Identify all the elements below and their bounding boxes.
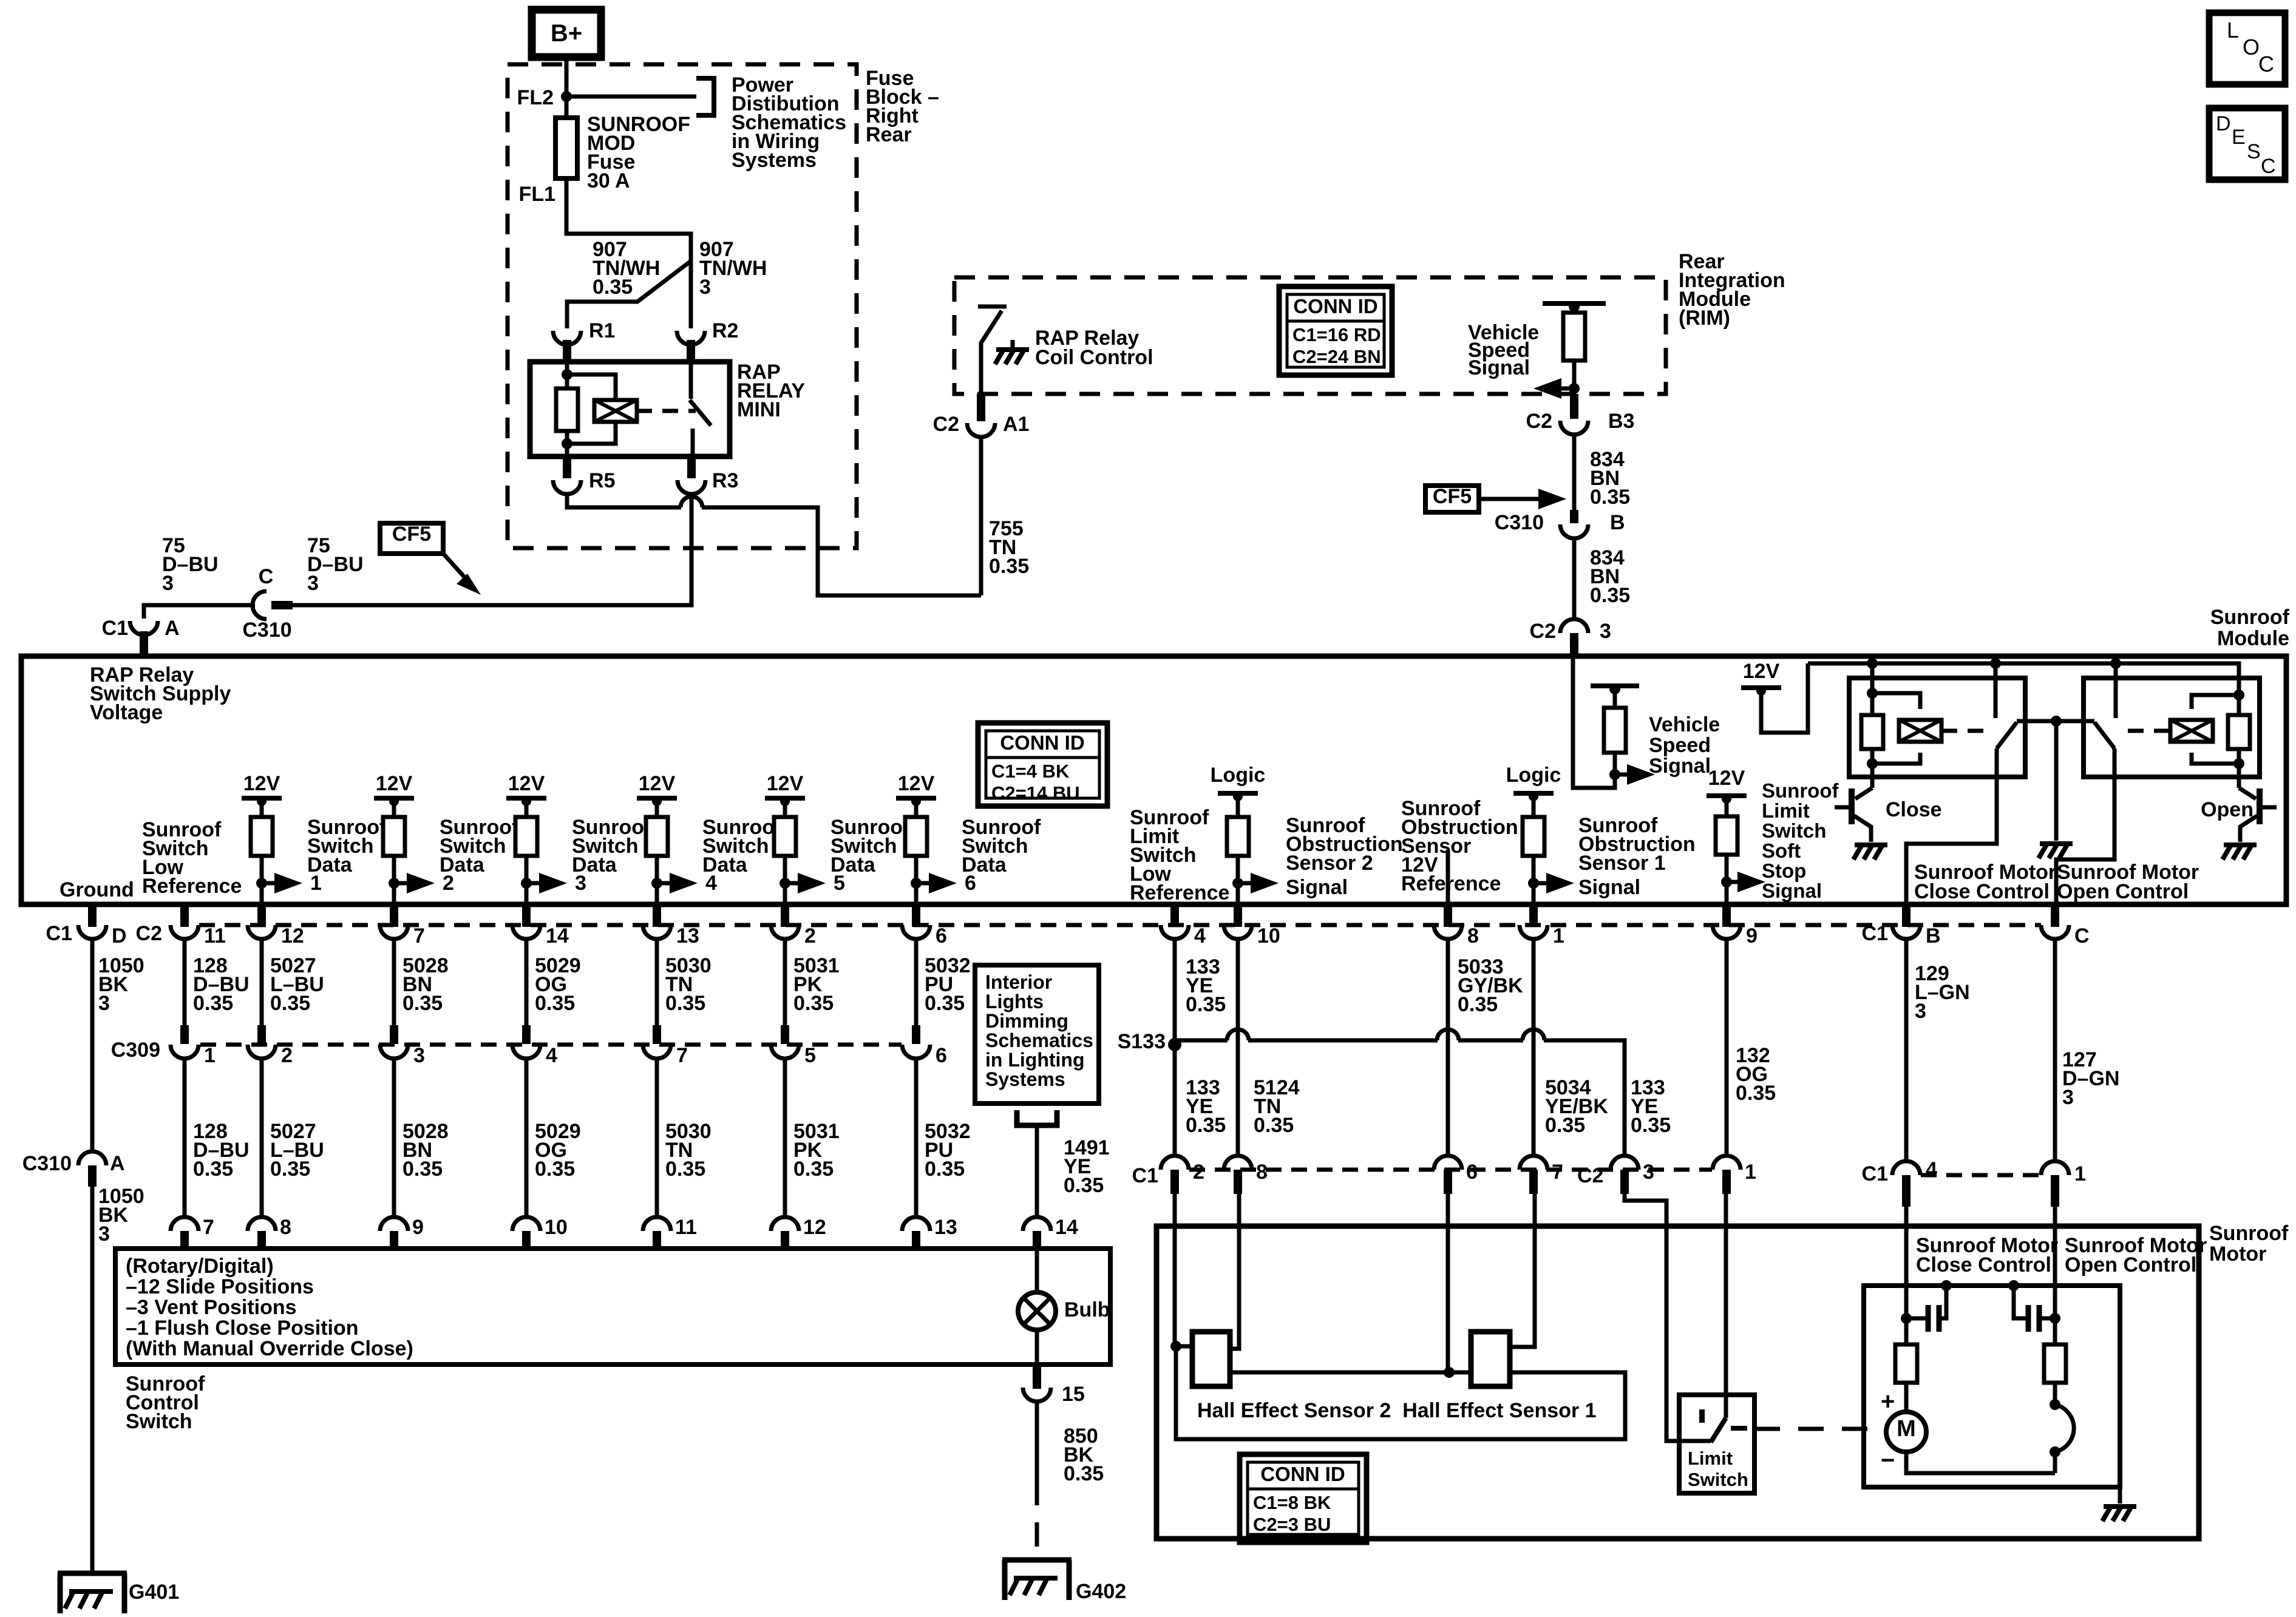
label pin C <box>2074 924 2090 947</box>
wire row1 to C309 at x867 <box>525 939 529 1025</box>
svg-text:(With Manual Override Close): (With Manual Override Close) <box>126 1337 413 1360</box>
svg-text:−: − <box>1881 1447 1895 1474</box>
label pin 1 <box>1553 924 1564 947</box>
svg-text:5: 5 <box>804 1044 816 1067</box>
close relay coil dashed link <box>1941 729 1984 733</box>
label Vehicle Speed Signal (RIM) <box>1468 321 1539 379</box>
svg-text:Signal: Signal <box>1578 876 1640 899</box>
pull-up resistor obstruction sensor 2 <box>1227 796 1249 904</box>
connector row C309 dashed line <box>200 1043 902 1047</box>
wire C309 pin 6 down <box>914 1059 919 1216</box>
RIM CONN ID table <box>1279 286 1392 375</box>
wire FL2 to power distribution pointer <box>566 95 696 99</box>
label wire 129 L-GN 3 <box>1915 962 1970 1023</box>
connector switch pin 10 <box>512 1217 540 1249</box>
svg-text:0.35: 0.35 <box>1736 1082 1776 1105</box>
label wire 128 D–BU upper <box>193 954 250 1015</box>
svg-text:Signal: Signal <box>1649 754 1711 778</box>
svg-text:G401: G401 <box>129 1581 179 1604</box>
connector row2 pin 7 <box>1520 1156 1547 1194</box>
svg-text:13: 13 <box>676 924 699 947</box>
open relay coil <box>2170 720 2213 742</box>
connector motor pin 1 <box>2041 1161 2069 1207</box>
label C309 pin 2 <box>281 1044 293 1067</box>
wire 1491 YE to switch pin 14 <box>1035 1125 1039 1216</box>
connector row1 pin C <box>2041 904 2069 939</box>
label Limit Switch <box>1688 1448 1748 1490</box>
module vehicle speed supply bar <box>1591 683 1639 694</box>
svg-text:Motor: Motor <box>2209 1242 2266 1266</box>
connector C309 pin 3 <box>380 1025 408 1059</box>
svg-text:R1: R1 <box>589 319 615 342</box>
svg-text:Reference: Reference <box>1130 881 1229 904</box>
label FL2 <box>517 86 554 109</box>
svg-text:0.35: 0.35 <box>989 555 1029 578</box>
svg-text:–12 Slide Positions: –12 Slide Positions <box>126 1275 314 1298</box>
svg-text:0.35: 0.35 <box>1458 993 1498 1016</box>
sunroof module box <box>21 656 2286 904</box>
svg-text:A: A <box>110 1152 125 1175</box>
label R2 <box>712 319 738 342</box>
svg-text:3: 3 <box>1600 620 1611 643</box>
signal arrow switch data 2 <box>389 872 454 895</box>
label C1 at pin A <box>102 617 128 640</box>
svg-text:0.35: 0.35 <box>1064 1174 1104 1197</box>
label wire 133 YE 0.35 pin2 <box>1186 1076 1226 1137</box>
svg-text:7: 7 <box>676 1044 688 1067</box>
wire B3 to C310 B (834 BN) <box>1572 435 1577 510</box>
label wire 128 D–BU lower <box>193 1120 250 1181</box>
label pin 9 <box>1746 924 1758 947</box>
label Sunroof Obstruction Sensor 1 Signal <box>1578 814 1696 899</box>
connector C309 pin 4 <box>512 1025 540 1059</box>
signal arrow switch data 3 <box>521 872 586 895</box>
svg-text:C309: C309 <box>111 1039 160 1062</box>
svg-text:Ground: Ground <box>59 878 134 901</box>
wire C309 pin 7 down <box>655 1059 659 1216</box>
svg-text:C2: C2 <box>1526 410 1552 433</box>
label 3 <box>1600 620 1611 643</box>
connector row1 pin 6 <box>902 904 930 939</box>
svg-text:Signal: Signal <box>1286 876 1348 899</box>
svg-text:0.35: 0.35 <box>1064 1462 1104 1485</box>
label wire 5027 L–BU upper <box>270 954 324 1015</box>
svg-text:4: 4 <box>546 1044 557 1067</box>
signal arrow switch data 6 <box>911 872 976 895</box>
open relay contact <box>2056 663 2116 748</box>
connector pin R5 <box>553 456 581 494</box>
svg-text:Switch: Switch <box>126 1410 192 1433</box>
ground Q2 emitter <box>2223 845 2257 859</box>
label pin 4 <box>1194 924 1206 947</box>
connector row C1-4 dashed line <box>1921 1173 2040 1178</box>
label + motor <box>1881 1388 1895 1415</box>
label R1 <box>589 319 615 342</box>
svg-text:C2: C2 <box>1577 1164 1603 1187</box>
label wire 755 TN 0.35 <box>989 517 1029 578</box>
svg-text:B: B <box>1926 924 1941 947</box>
12V supply rail for switch data 3 <box>506 772 546 806</box>
wire row1 to C309 at x1082 <box>655 939 659 1025</box>
label row2 pin 2 <box>1193 1161 1204 1184</box>
svg-text:Systems: Systems <box>732 149 817 172</box>
connector row1 pin B <box>1892 904 1920 939</box>
svg-text:6: 6 <box>936 924 947 947</box>
label Sunroof Limit Switch Low Reference <box>1130 806 1229 904</box>
CF5 arrow to 834 BN wire <box>1479 489 1566 509</box>
wire S133 splice bus to pin3 column <box>1175 1040 1625 1156</box>
module vehicle speed resistor <box>1604 689 1626 775</box>
connector row1 pin 12 <box>248 904 276 939</box>
label switch pin 14 <box>1055 1216 1078 1239</box>
svg-text:C2: C2 <box>1530 620 1556 643</box>
hop over pin8 column <box>1437 1029 1459 1040</box>
svg-text:7: 7 <box>413 924 425 947</box>
svg-text:Speed: Speed <box>1649 734 1711 757</box>
wire 12V ref node to hall1 <box>1449 1371 1471 1375</box>
svg-text:0.35: 0.35 <box>793 992 834 1015</box>
label wire 5031 PK upper <box>793 954 840 1015</box>
label pin 7 <box>413 924 425 947</box>
svg-text:B3: B3 <box>1608 410 1634 433</box>
label wire 5029 OG lower <box>535 1120 581 1181</box>
module vehicle speed signal arrow <box>1609 764 1655 785</box>
motor inner assembly box <box>1864 1286 2120 1487</box>
svg-text:+: + <box>1881 1388 1895 1415</box>
motor commutator switch arc <box>2050 1383 2074 1457</box>
svg-text:A: A <box>165 617 180 640</box>
connector row 1 dashed harness line <box>199 923 2041 927</box>
svg-text:0.35: 0.35 <box>270 992 310 1015</box>
svg-text:9: 9 <box>1746 924 1758 947</box>
svg-text:Reference: Reference <box>142 875 242 898</box>
svg-text:CF5: CF5 <box>392 523 431 546</box>
svg-text:Soft: Soft <box>1762 839 1801 862</box>
connector switch pin 8 <box>248 1217 276 1249</box>
svg-text:3: 3 <box>699 276 711 299</box>
wire pin9 to row2 pin1 (132 OG) <box>1725 939 1729 1156</box>
connector C309 pin 2 <box>248 1025 276 1059</box>
wire row1 to C309 at x1293 <box>783 939 787 1025</box>
svg-text:C: C <box>2074 924 2090 947</box>
svg-text:Sensor 1: Sensor 1 <box>1578 852 1666 875</box>
svg-text:Coil Control: Coil Control <box>1035 346 1153 369</box>
svg-text:2: 2 <box>1193 1161 1204 1184</box>
label - motor <box>1881 1447 1895 1474</box>
hall effect sensor 2 box <box>1192 1332 1230 1386</box>
svg-text:R2: R2 <box>712 319 738 342</box>
label 4 <box>1926 1158 1937 1181</box>
signal arrow obstruction sensor 2 <box>1232 873 1279 893</box>
connector row2 pin 8 <box>1224 1156 1252 1194</box>
label wire 834 BN 0.35 (lower) <box>1590 546 1630 607</box>
svg-text:Data: Data <box>702 853 748 876</box>
svg-text:Close: Close <box>1886 798 1942 821</box>
connector row1 pin 7 <box>380 904 408 939</box>
svg-text:Logic: Logic <box>1211 764 1266 787</box>
label C1 at row2 <box>1132 1164 1158 1187</box>
connector pin R3 <box>678 456 705 494</box>
12V supply rail for switch data 6 <box>896 772 936 806</box>
label wire 132 OG 0.35 <box>1736 1044 1776 1105</box>
label Power Distribution Schematics in Wiring Systems <box>732 73 846 172</box>
wire open column into motor <box>2053 1207 2057 1344</box>
wire row2 pin3 to limit switch <box>1625 1194 1711 1441</box>
label Sunroof Switch Data 2 <box>440 816 519 876</box>
power node B+ (battery feed) box <box>532 10 601 57</box>
label row2 pin 1 <box>1745 1161 1756 1184</box>
label Sunroof Switch Data 1 <box>307 816 387 876</box>
svg-text:Interior: Interior <box>985 971 1052 993</box>
svg-text:0.35: 0.35 <box>402 1158 443 1181</box>
wire bulb to pin 15 <box>1035 1330 1039 1364</box>
svg-text:D: D <box>2216 112 2231 135</box>
label Vehicle Speed Signal (module) <box>1649 713 1720 778</box>
label wire 1050 BK upper <box>98 954 144 1015</box>
svg-text:0.35: 0.35 <box>1631 1114 1671 1137</box>
pull-up resistor switch data 5 <box>774 801 796 904</box>
svg-text:1: 1 <box>1553 924 1564 947</box>
svg-text:10: 10 <box>1257 924 1280 947</box>
label pin 13 <box>676 924 699 947</box>
svg-text:Schematics: Schematics <box>985 1029 1093 1051</box>
wire row1 to C309 at x304 <box>183 939 187 1025</box>
motor M1 sunroof motor <box>1886 1383 1926 1452</box>
label RAP Relay Switch Supply Voltage <box>90 663 231 724</box>
label C310 under pass-through <box>242 619 291 642</box>
label B3 <box>1608 410 1634 433</box>
svg-text:C1: C1 <box>1132 1164 1158 1187</box>
svg-text:S133: S133 <box>1118 1030 1166 1053</box>
Logic rail obstruction sensor 2 <box>1211 764 1266 801</box>
svg-text:14: 14 <box>546 924 569 947</box>
svg-text:0.35: 0.35 <box>925 992 965 1015</box>
relay coil branch wires <box>567 375 616 444</box>
wire row1 to C309 at x649 <box>392 939 396 1025</box>
svg-text:0.35: 0.35 <box>535 1158 575 1181</box>
svg-text:Data: Data <box>307 853 353 876</box>
RIM vehicle speed resistor <box>1563 307 1585 361</box>
ground relay common <box>2039 844 2073 858</box>
svg-text:CONN ID: CONN ID <box>1260 1463 1345 1485</box>
label C309 pin 1 <box>204 1044 216 1067</box>
label pin 12 <box>281 924 304 947</box>
connector row1 pin D <box>78 904 106 939</box>
label wire 5030 TN lower <box>665 1120 712 1181</box>
signal arrow switch data 1 <box>256 872 322 895</box>
svg-text:1: 1 <box>204 1044 216 1067</box>
svg-text:Signal: Signal <box>1762 880 1822 902</box>
svg-text:Close Control: Close Control <box>1914 880 2050 903</box>
label rotary digital positions <box>126 1255 413 1360</box>
label S133 <box>1118 1030 1166 1053</box>
svg-text:C: C <box>2261 155 2276 178</box>
svg-text:13: 13 <box>934 1216 957 1239</box>
wire C309 pin 4 down <box>525 1059 529 1216</box>
label Sunroof Limit Switch Soft Stop Signal <box>1762 779 1839 902</box>
connector C309 pin 1 <box>171 1025 199 1059</box>
label C2 at pin 3 <box>1530 620 1556 643</box>
svg-text:C2: C2 <box>933 413 959 436</box>
wire row2 pin2 to hall ground node <box>1173 1194 1177 1346</box>
label wire 850 BK 0.35 <box>1064 1425 1104 1485</box>
wire open relay output to C <box>2056 748 2114 904</box>
capacitor C2 snubber <box>2008 1280 2060 1332</box>
label Sunroof Motor Close Control (motor) <box>1916 1234 2058 1276</box>
ground motor case <box>2102 1507 2136 1521</box>
connector C309 pin 5 <box>771 1025 799 1059</box>
label wire 5029 OG upper <box>535 954 581 1015</box>
wire obstruction sensor 12V reference to pin 8 <box>1446 850 1450 904</box>
label Sunroof Motor Open Control (module) <box>2057 861 2199 903</box>
connector row1 pin 2 <box>771 904 799 939</box>
svg-text:S: S <box>2247 140 2261 163</box>
label A at C310 <box>110 1152 125 1175</box>
label G401 <box>129 1581 179 1604</box>
label C1 at row1 pin B <box>1862 922 1888 945</box>
label wire 75 D-BU 3 (left) <box>162 534 219 595</box>
label wire 5028 BN lower <box>402 1120 449 1181</box>
connector row1 pin 14 <box>512 904 540 939</box>
connector row2 pin 3 <box>1611 1156 1639 1194</box>
pull-up resistor obstruction sensor 1 <box>1523 796 1544 904</box>
close relay resistor <box>1861 715 1883 749</box>
wire C1-B to motor (129 L-GN) <box>1904 939 1909 1161</box>
connector row2 pin 2 <box>1161 1156 1189 1194</box>
ground G402 <box>1002 1560 1072 1600</box>
connector row2 dashed line <box>1189 1168 1712 1172</box>
label pin 2 <box>804 924 816 947</box>
hop over pin10 column <box>1227 1029 1249 1040</box>
label C309 pin 4 <box>546 1044 557 1067</box>
svg-text:6: 6 <box>936 1044 947 1067</box>
connector switch pin 14 <box>1023 1217 1051 1249</box>
svg-text:Switch: Switch <box>1762 819 1826 842</box>
relay coil-circuit wire with junction dots <box>562 362 572 456</box>
label C309 <box>111 1039 160 1062</box>
svg-text:12: 12 <box>281 924 304 947</box>
svg-text:C1: C1 <box>102 617 128 640</box>
wire fuse FL1 down and right to R2 branch <box>566 178 691 328</box>
relay coil-to-contact dashed link <box>636 409 696 413</box>
Interior Lights Dimming callout box <box>975 965 1099 1103</box>
transistor Q1 Close driver <box>1835 788 1872 842</box>
label switch pin 9 <box>412 1216 424 1239</box>
svg-text:Bulb: Bulb <box>1064 1298 1110 1321</box>
label wire 5032 PU upper <box>925 954 971 1015</box>
svg-text:4: 4 <box>1926 1158 1937 1181</box>
label switch pin 13 <box>934 1216 957 1239</box>
bulb lamp symbol <box>1018 1292 1056 1330</box>
connector row1 pin 8 <box>1434 904 1462 939</box>
svg-text:Open Control: Open Control <box>2057 880 2189 903</box>
connector pin R1 <box>553 331 581 362</box>
svg-text:C310: C310 <box>22 1152 72 1175</box>
connector C310 pin A <box>78 1151 106 1187</box>
svg-text:Sunroof: Sunroof <box>2210 606 2290 629</box>
label Sunroof Module <box>2210 606 2290 650</box>
12V rail for motor relays <box>1741 660 1781 696</box>
svg-text:B: B <box>1610 511 1625 534</box>
connector C2 pin B3 <box>1560 394 1588 435</box>
connector C1 pin A into sunroof module <box>130 621 158 656</box>
svg-text:0.35: 0.35 <box>665 1158 705 1181</box>
CF5 arrow to supply wire <box>443 554 481 595</box>
svg-text:Open Control: Open Control <box>2065 1253 2196 1276</box>
label pin 14 <box>546 924 569 947</box>
svg-text:12V: 12V <box>1708 767 1745 790</box>
module CONN ID table <box>978 723 1107 806</box>
svg-text:Voltage: Voltage <box>90 701 163 724</box>
RAP relay coil control switch in RIM <box>978 307 1029 394</box>
motor CONN ID table <box>1240 1454 1367 1542</box>
connector C310 pin C pass-through <box>253 591 293 619</box>
svg-text:12V: 12V <box>639 772 676 795</box>
svg-text:CONN ID: CONN ID <box>1293 295 1377 317</box>
svg-text:M: M <box>1897 1416 1916 1442</box>
svg-text:Data: Data <box>962 853 1007 876</box>
label C310 at B <box>1495 511 1544 534</box>
svg-text:C: C <box>259 565 274 588</box>
CF5 callout box right <box>1425 485 1479 512</box>
svg-text:8: 8 <box>280 1216 291 1239</box>
close relay coil <box>1899 720 1941 742</box>
label Fuse Block - Right Rear <box>866 67 939 146</box>
wire row1 to C309 at x1509 <box>914 939 919 1025</box>
12V supply rail for switch data 1 <box>242 772 282 806</box>
wire C1-D ground to C310-A <box>90 939 95 1152</box>
svg-text:Data: Data <box>830 853 876 876</box>
close relay resistor branch <box>1867 663 1878 788</box>
connector C1 pin 4 <box>1892 1161 1920 1207</box>
svg-text:MINI: MINI <box>737 398 781 421</box>
svg-text:11: 11 <box>204 924 226 947</box>
svg-text:G402: G402 <box>1076 1580 1126 1603</box>
label R3 <box>712 469 738 492</box>
svg-text:(RIM): (RIM) <box>1679 307 1730 330</box>
wire branch to R1 (907 TN/WH 0.35) <box>567 261 691 328</box>
label pin 6 <box>936 924 947 947</box>
wire pin8 to row2 pin6 (5033 GY/BK) <box>1446 939 1450 1156</box>
svg-text:Reference: Reference <box>1401 872 1501 895</box>
RIM vehicle speed signal arrow <box>1533 378 1572 399</box>
relay bus wire with junctions <box>1808 658 2239 695</box>
Rear Integration Module dashed outline <box>954 277 1666 394</box>
wire motor bottom loop <box>1906 1452 2055 1473</box>
open relay coil dashed link <box>2128 729 2170 733</box>
label C309 pin 3 <box>413 1044 425 1067</box>
wire C309 pin 5 down <box>783 1059 787 1216</box>
close relay box <box>1849 678 2025 777</box>
svg-text:Signal: Signal <box>1468 356 1530 379</box>
svg-text:3: 3 <box>98 992 110 1015</box>
svg-text:10: 10 <box>545 1216 568 1239</box>
label C310 at A <box>22 1152 72 1175</box>
label SUNROOF MOD Fuse 30 A <box>587 113 690 192</box>
svg-text:Stop: Stop <box>1762 859 1806 882</box>
pull-up resistor soft stop <box>1716 799 1737 904</box>
svg-text:Sunroof: Sunroof <box>1762 779 1839 802</box>
svg-text:C1: C1 <box>1862 1162 1888 1185</box>
relay contact arm <box>690 362 711 456</box>
open relay box <box>2084 678 2260 777</box>
wire A1 755 TN down <box>979 437 983 595</box>
svg-text:3: 3 <box>1643 1161 1654 1184</box>
hall effect sensor 1 box <box>1471 1332 1510 1386</box>
pull-up resistor switch data 4 <box>646 801 668 904</box>
label Sunroof Switch Data 3 <box>572 816 651 876</box>
wire C309 pin 3 down <box>392 1059 396 1216</box>
